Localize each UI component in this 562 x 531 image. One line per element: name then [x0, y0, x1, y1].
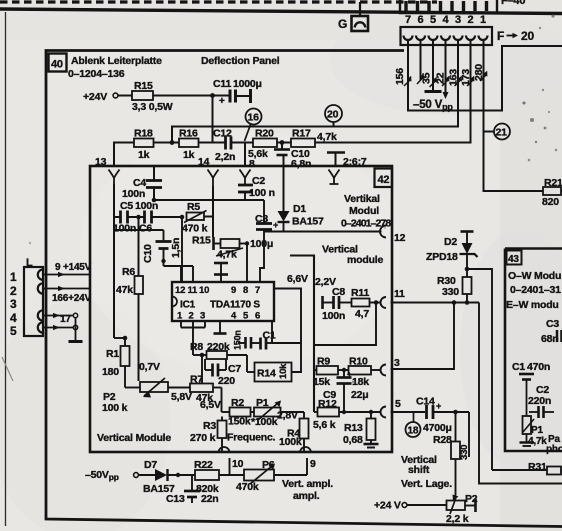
svg-text:47k: 47k	[116, 284, 133, 296]
capacitor C13 22n	[166, 475, 219, 505]
resistor R6 47k	[116, 217, 143, 381]
svg-text:3,3 0,5W: 3,3 0,5W	[132, 101, 173, 113]
svg-text:5: 5	[395, 398, 401, 410]
svg-text:C3: C3	[546, 318, 559, 330]
connector F-40 (partial, top right)	[400, 0, 525, 13]
svg-text:Vertical Module: Vertical Module	[97, 432, 171, 444]
label 22	[435, 72, 447, 84]
svg-text:1: 1	[10, 270, 17, 284]
svg-text:12: 12	[394, 232, 406, 244]
fork bottom left	[219, 447, 230, 453]
capacitor C12 2,2n	[213, 128, 235, 164]
wire D2 junction to module43 rail	[465, 267, 492, 470]
svg-text:+: +	[219, 96, 225, 107]
svg-text:20: 20	[521, 29, 534, 43]
svg-text:40: 40	[51, 59, 63, 71]
svg-text:+: +	[436, 401, 441, 411]
resistor R4 100k	[279, 412, 309, 452]
svg-text:470n: 470n	[527, 361, 550, 373]
svg-text:470k: 470k	[236, 481, 259, 493]
wire pin6	[417, 40, 424, 84]
svg-text:2,2 k: 2,2 k	[446, 513, 469, 525]
svg-text:22μ: 22μ	[351, 389, 369, 401]
label 2,8V	[277, 410, 298, 422]
resistor R18 1k	[134, 128, 154, 162]
resistor R28	[433, 412, 470, 499]
svg-text:R11: R11	[351, 287, 369, 299]
diode D1 BA157	[278, 203, 325, 231]
wire R15/C3 to pin 8	[245, 241, 249, 282]
resistor R5 470k	[182, 201, 213, 235]
potentiometer P2 100k	[102, 378, 168, 414]
svg-text:BA157: BA157	[292, 216, 324, 228]
svg-text:P1: P1	[531, 425, 543, 436]
pin 9 stub	[307, 458, 316, 475]
node 20	[325, 105, 342, 127]
capacitor C11 1000u	[213, 78, 262, 107]
+24V terminal	[83, 91, 132, 103]
pin symbol 2;6;7	[327, 153, 367, 169]
wire pin2 to R17	[315, 40, 474, 143]
potentiometer P1 4,7k (module43)	[520, 406, 562, 455]
wire R20 to R17 with C10 junction	[277, 140, 291, 145]
label 0,7V	[139, 361, 160, 373]
svg-text:O–W Modu: O–W Modu	[508, 270, 561, 282]
svg-text:330: 330	[459, 445, 470, 460]
svg-text:270 k: 270 k	[190, 432, 216, 444]
svg-text:C7: C7	[228, 363, 241, 375]
svg-text:1: 1	[480, 14, 486, 26]
top dashed bus line	[0, 0, 437, 3]
svg-text:R13: R13	[344, 422, 363, 434]
svg-text:D2: D2	[444, 236, 457, 248]
wire pin3 / line to node 20 and R18 junction	[172, 40, 462, 143]
wire pin4 (ends with arrow)	[442, 40, 449, 99]
svg-text:6,8n: 6,8n	[291, 158, 311, 170]
title Vertikal Modul	[341, 193, 391, 230]
svg-text:6: 6	[418, 14, 424, 26]
node 16	[245, 109, 262, 142]
svg-text:5,6 k: 5,6 k	[313, 419, 336, 431]
svg-text:5: 5	[10, 324, 17, 338]
svg-text:+: +	[273, 220, 278, 230]
label 173	[460, 69, 472, 86]
svg-text:0,68: 0,68	[343, 434, 363, 446]
svg-text:R5: R5	[187, 201, 200, 213]
capacitor C10 1,5n (module)	[114, 230, 182, 266]
capacitor C9 22u	[323, 369, 369, 412]
svg-text:Vertikal: Vertikal	[344, 193, 380, 205]
capacitor C4 100n	[122, 167, 162, 200]
IC1 TDA1170S	[172, 282, 274, 322]
diode D2 ZPD18	[426, 232, 478, 270]
resistor R16 1k	[179, 128, 199, 162]
svg-text:pho: pho	[546, 444, 562, 455]
svg-text:11: 11	[188, 285, 199, 296]
connector F-20	[401, 14, 535, 45]
fork pin 8	[240, 170, 251, 185]
wire pin12 row	[264, 226, 406, 245]
resistor R15 4,7k (module)	[192, 235, 247, 261]
svg-text:C11: C11	[213, 78, 231, 90]
wire pin13 leg	[95, 143, 134, 169]
svg-text:C12: C12	[213, 128, 232, 140]
capacitor C2 100n (module top)	[238, 175, 275, 200]
ground L	[69, 318, 83, 342]
svg-text:+24V: +24V	[83, 91, 107, 103]
svg-text:Deflection Panel: Deflection Panel	[201, 55, 280, 67]
label -50 Vpp	[413, 99, 453, 112]
svg-text:16: 16	[248, 112, 260, 124]
label 42	[375, 169, 393, 188]
resistor R2 150k	[222, 397, 251, 428]
svg-text:7: 7	[405, 14, 411, 26]
capacitor C1 (module)	[261, 321, 302, 350]
svg-text:330: 330	[442, 286, 459, 298]
wire R5/pin12 rail	[181, 217, 183, 282]
label 40	[49, 54, 67, 72]
svg-text:10: 10	[232, 458, 244, 470]
svg-text:150k: 150k	[228, 416, 251, 428]
svg-text:5,8V: 5,8V	[171, 391, 192, 403]
svg-text:156: 156	[394, 68, 406, 85]
svg-text:0–2401–31: 0–2401–31	[510, 284, 561, 296]
svg-text:22: 22	[435, 72, 447, 84]
capacitor C14 4700u	[416, 396, 469, 435]
title Ablenk Leiterplatte	[68, 55, 162, 80]
svg-text:100μ: 100μ	[250, 238, 273, 250]
svg-text:150n: 150n	[233, 330, 243, 350]
svg-text:280: 280	[473, 64, 485, 81]
ground cap below IC pin3	[214, 321, 227, 334]
svg-text:220: 220	[218, 375, 235, 387]
svg-text:E–W modu: E–W modu	[506, 299, 559, 311]
resistor R8 220k	[190, 341, 247, 384]
wire R18-R16 with junction	[154, 140, 180, 145]
svg-text:4700μ: 4700μ	[423, 422, 452, 434]
page border left	[2, 12, 13, 526]
svg-text:12: 12	[175, 285, 185, 296]
title Vertical module	[322, 244, 383, 267]
svg-text:10: 10	[199, 285, 209, 296]
svg-text:G: G	[338, 17, 347, 31]
pin 11	[381, 288, 406, 308]
connector G	[338, 2, 368, 31]
svg-text:D1: D1	[293, 203, 306, 215]
resistor R7 47k	[168, 374, 222, 413]
svg-text:3: 3	[394, 357, 400, 369]
wire pin11 external	[391, 300, 480, 305]
potentiometer P6 470k	[236, 459, 307, 493]
svg-text:100n: 100n	[322, 310, 345, 322]
node 18	[406, 422, 421, 437]
svg-text:Vert. ampl.: Vert. ampl.	[282, 478, 333, 490]
svg-text:163: 163	[448, 69, 460, 86]
pin 3	[381, 357, 400, 376]
capacitor C7 220	[205, 359, 241, 387]
resistor R14 10k	[247, 355, 292, 382]
svg-text:ampl.: ampl.	[293, 490, 320, 502]
svg-text:4,7k: 4,7k	[317, 131, 337, 143]
svg-text:*100k: *100k	[251, 416, 278, 428]
labels 6,6V 2,2V	[287, 273, 308, 285]
svg-text:15k: 15k	[313, 376, 330, 388]
capacitor C10 6,8n	[274, 143, 311, 171]
label Vertical Module	[97, 432, 171, 444]
diode D7 BA157	[143, 459, 195, 495]
svg-text:C13: C13	[166, 493, 185, 505]
wire R11 loop to rail	[314, 303, 376, 346]
svg-text:Frequenc.: Frequenc.	[227, 432, 276, 444]
capacitor C5 100n	[113, 200, 158, 235]
IC top wires pins 12,11	[164, 266, 194, 282]
label 6,5V	[200, 399, 221, 411]
svg-text:TDA1170 S: TDA1170 S	[210, 300, 260, 311]
svg-text:C5: C5	[120, 200, 133, 212]
fork pin 2;6;7	[329, 170, 340, 185]
resistor R1 180	[102, 336, 130, 388]
capacitor above IC (pin9)	[214, 263, 228, 282]
top thick border line	[0, 9, 562, 14]
svg-text:5: 5	[430, 14, 436, 26]
capacitor C3 68n (module43)	[541, 318, 562, 345]
svg-text:820k: 820k	[196, 483, 219, 495]
svg-text:2: 2	[10, 284, 17, 298]
svg-text:17: 17	[60, 314, 71, 325]
svg-text:18k: 18k	[352, 376, 369, 388]
resistor R9 15k	[313, 356, 338, 389]
svg-text:0,7V: 0,7V	[139, 361, 160, 373]
resistor R31	[528, 461, 562, 475]
svg-text:R14: R14	[257, 368, 276, 380]
svg-text:R6: R6	[122, 266, 135, 278]
svg-text:R15: R15	[192, 235, 211, 247]
svg-text:35: 35	[421, 72, 433, 84]
svg-text:100n: 100n	[122, 188, 145, 200]
pin 10 stub	[230, 458, 244, 475]
resistor R20 5,6k	[248, 128, 277, 171]
svg-text:21: 21	[496, 127, 508, 139]
title Deflection Panel	[201, 55, 280, 67]
svg-text:9 +145V: 9 +145V	[55, 262, 92, 273]
svg-text:2,2n: 2,2n	[215, 151, 235, 163]
svg-text:3: 3	[455, 14, 461, 26]
resistor R15 (3,3 0,5W)	[132, 80, 173, 113]
svg-text:0–1204–136: 0–1204–136	[68, 68, 125, 80]
svg-text:100n: 100n	[135, 200, 158, 212]
svg-text:9: 9	[310, 458, 316, 470]
svg-text:10k: 10k	[278, 363, 289, 379]
wire C14 right leg down	[468, 412, 470, 457]
svg-text:4: 4	[10, 311, 17, 325]
svg-text:8: 8	[243, 285, 248, 296]
potentiometer P1 100k	[251, 397, 282, 428]
node line y200	[152, 198, 264, 203]
label Vert ampl	[282, 478, 333, 502]
wire R16 to C12	[199, 142, 226, 144]
svg-text:9: 9	[231, 285, 236, 296]
wire C11 junction down to R16/C12 row	[212, 96, 214, 143]
-50Vpp terminal bottom	[85, 469, 155, 482]
svg-text:R31: R31	[528, 461, 547, 473]
capacitor C6 100n	[139, 211, 184, 235]
svg-text:4,7: 4,7	[355, 308, 369, 320]
fork pin 14	[208, 170, 219, 187]
svg-text:6,5V: 6,5V	[200, 399, 221, 411]
svg-text:F–40: F–40	[501, 0, 525, 7]
svg-text:100n: 100n	[113, 223, 136, 235]
svg-text:R1: R1	[106, 348, 119, 360]
capacitor C3 100u	[250, 200, 278, 250]
svg-text:+24 V: +24 V	[374, 500, 401, 512]
svg-text:6: 6	[255, 311, 260, 322]
svg-text:shift: shift	[408, 464, 430, 476]
svg-text:18: 18	[408, 426, 419, 437]
resistor R12 5,6k	[313, 398, 382, 431]
wire pin5 to ground	[430, 40, 437, 91]
svg-text:R8: R8	[190, 341, 203, 353]
svg-text:Modul: Modul	[349, 205, 379, 217]
wire L pin4	[43, 313, 78, 325]
wire pin11 net to bottom right	[479, 303, 562, 484]
wire L pin5	[43, 325, 78, 330]
wire L pin2 +24V	[43, 286, 91, 304]
svg-text:F: F	[497, 29, 504, 43]
wire C12 to R20 with pin8 drop	[231, 143, 253, 167]
svg-text:3: 3	[200, 311, 205, 322]
svg-text:7: 7	[255, 285, 260, 296]
pin 5	[381, 398, 401, 418]
potentiometer P2 2,2k	[446, 493, 478, 525]
svg-text:R3: R3	[203, 420, 216, 432]
svg-text:R28: R28	[433, 434, 452, 446]
svg-text:180: 180	[102, 366, 119, 378]
wire pin1 to R21	[480, 40, 543, 191]
svg-text:Vert. Lage.: Vert. Lage.	[401, 478, 452, 490]
svg-text:20: 20	[327, 109, 339, 121]
wire fork14 rail	[212, 186, 214, 237]
capacitor C8 100n	[322, 286, 352, 322]
wire R31 rail	[492, 469, 546, 471]
svg-text:C1: C1	[512, 361, 525, 373]
connector L	[10, 257, 43, 338]
resistor R3 270k	[190, 417, 227, 453]
resistor R10 18k	[338, 356, 382, 389]
svg-text:2: 2	[468, 14, 474, 26]
svg-text:Ablenk Leiterplatte: Ablenk Leiterplatte	[71, 55, 162, 67]
svg-text:220n: 220n	[528, 395, 551, 407]
wire C10 to D1	[283, 155, 285, 211]
svg-text:C10: C10	[142, 244, 154, 263]
svg-text:820: 820	[542, 196, 559, 208]
title O-W Modul	[506, 270, 561, 311]
svg-text:0–2401–278: 0–2401–278	[341, 218, 391, 230]
resistor R17 4,7k	[291, 128, 337, 148]
svg-text:1,5n: 1,5n	[170, 238, 182, 258]
label 35	[421, 72, 433, 84]
ground -50Vpp	[425, 90, 442, 93]
svg-text:2: 2	[189, 311, 194, 322]
svg-text:43: 43	[508, 254, 519, 265]
svg-text:8: 8	[249, 158, 255, 170]
svg-text:1k: 1k	[138, 149, 150, 161]
resistor R21	[542, 177, 562, 208]
+24V bottom terminal	[374, 500, 447, 512]
resistor R13 0,68	[343, 412, 379, 448]
svg-text:1k: 1k	[183, 149, 195, 161]
fork bottom right	[300, 447, 311, 453]
svg-text:166+24V: 166+24V	[52, 293, 91, 304]
wire L pin1 +145V	[43, 262, 92, 277]
svg-text:ZPD18: ZPD18	[426, 251, 458, 263]
wire pin7 net 156	[404, 40, 562, 111]
label 163	[448, 69, 460, 86]
main left rail (pin13)	[113, 184, 115, 338]
resistor R11 4,7	[351, 287, 382, 320]
label Vertical shift	[401, 454, 452, 490]
module 42 box (Vertikal Modul)	[90, 166, 392, 452]
fork pin 13	[109, 170, 120, 185]
svg-text:470 k: 470 k	[182, 223, 208, 235]
label 14	[198, 156, 210, 168]
wire pin3 external	[391, 303, 455, 370]
capacitor C2 220n (module43)	[528, 384, 554, 418]
wire R15 to C11	[153, 93, 229, 98]
wire pin5 external to C14	[391, 412, 426, 422]
paper noise specks	[29, 14, 558, 386]
svg-text:42: 42	[378, 174, 390, 186]
svg-text:11: 11	[394, 288, 405, 300]
label 43	[507, 251, 522, 266]
svg-text:module: module	[347, 254, 383, 266]
svg-text:3: 3	[10, 297, 17, 311]
svg-text:173: 173	[460, 69, 472, 86]
wire R14 right to IC	[274, 289, 301, 373]
capacitor C1 470n (module43)	[512, 361, 550, 406]
resistor R22 820k	[194, 459, 244, 495]
module 43 box (O-W Modul)	[505, 249, 562, 452]
svg-text:1000μ: 1000μ	[233, 78, 262, 90]
capacitor 150n below IC	[233, 330, 261, 350]
resistor R30 330	[437, 269, 472, 305]
IC bottom wires pins 1,2,3	[181, 321, 205, 355]
wire C3 to pin 7	[260, 232, 264, 283]
label 280	[473, 64, 485, 81]
label 156	[394, 68, 406, 85]
svg-text:100k: 100k	[279, 436, 302, 448]
svg-text:6,6V: 6,6V	[287, 273, 308, 285]
svg-text:100 k: 100 k	[102, 402, 128, 414]
svg-text:IC1: IC1	[180, 300, 196, 311]
svg-text:C6: C6	[139, 223, 152, 235]
mid rail x314	[290, 256, 314, 413]
label 5,8V	[171, 391, 192, 403]
node 21	[484, 124, 511, 140]
label Frequenc.	[227, 432, 276, 444]
svg-text:C2: C2	[252, 175, 265, 187]
svg-text:C1: C1	[263, 330, 276, 342]
